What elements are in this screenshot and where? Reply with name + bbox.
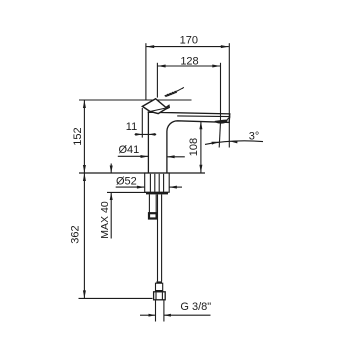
angle arrow left	[212, 142, 220, 145]
dim 11 ext left (lever tip)	[141, 108, 143, 138]
threaded stud	[148, 195, 150, 214]
ferrule bottom edge	[155, 290, 163, 292]
dim 128 arrow left	[158, 65, 166, 68]
svg-text:362: 362	[70, 225, 82, 243]
MAX40 ref line	[107, 191, 146, 193]
dim 152 arrow top	[83, 100, 86, 108]
dia41 leader	[118, 155, 148, 157]
svg-text:G 3/8": G 3/8"	[180, 301, 211, 313]
lever outline	[142, 99, 169, 114]
stud nut	[149, 213, 157, 218]
deck line	[79, 172, 205, 174]
dim 128 line	[158, 65, 221, 67]
dim 362 arrow top	[83, 173, 86, 181]
dim 152+362 line	[83, 100, 85, 298]
faucet body outline	[148, 112, 230, 173]
dim 128 ext left	[156, 63, 158, 98]
supply hose	[157, 195, 159, 282]
mounting box hatch lines	[149, 174, 151, 192]
MAX40 lower arrow + leader	[110, 193, 112, 239]
svg-text:128: 128	[180, 55, 198, 67]
mounting box	[145, 173, 170, 192]
dim 170 ext right	[228, 43, 230, 147]
svg-text:3°: 3°	[249, 131, 260, 143]
dim 170 arrow right	[221, 45, 229, 48]
lever indicator stick	[165, 87, 184, 96]
spout outlet teardrop	[215, 120, 228, 124]
svg-text:Ø52: Ø52	[116, 175, 137, 187]
dim 108 arrow top	[199, 121, 202, 129]
dim 170 line	[146, 46, 229, 48]
bottom reference line 362	[79, 297, 153, 299]
spout tip edge line	[227, 117, 230, 120]
angle arrow right	[230, 141, 238, 144]
G3/8 ext lines	[155, 300, 157, 321]
dim 11 arrow right (outside)	[148, 133, 155, 136]
hose end band	[156, 281, 162, 283]
dim 170 ext left	[145, 43, 147, 100]
svg-text:MAX 40: MAX 40	[99, 201, 111, 239]
dim 108 arrow bottom	[199, 165, 202, 173]
dim 152 arrow bottom	[83, 165, 86, 173]
lever top extension line	[79, 99, 192, 101]
spout top inner edge	[177, 115, 229, 118]
angle 3deg leg tilted	[219, 122, 220, 148]
lever crease	[150, 108, 165, 111]
dim 11 line	[135, 133, 157, 135]
gasket bar	[146, 192, 168, 194]
svg-text:108: 108	[188, 138, 200, 156]
dim 170 arrow left	[146, 45, 154, 48]
G3/8 nut	[154, 292, 166, 300]
dim 362 arrow bottom	[83, 290, 86, 298]
dim 128 ext right / aerator axis	[220, 63, 222, 122]
dia52 leader	[116, 186, 145, 188]
svg-text:152: 152	[72, 127, 84, 145]
angle 3deg arc	[205, 141, 263, 145]
svg-text:11: 11	[126, 121, 137, 133]
dim 108 line	[200, 122, 202, 173]
MAX40 dim upper arrow	[110, 164, 112, 174]
dim 128 arrow right	[212, 65, 220, 68]
dim 11 arrow left (outside)	[135, 133, 142, 136]
hose ferrule	[156, 283, 163, 291]
svg-text:Ø41: Ø41	[119, 144, 140, 156]
svg-text:170: 170	[180, 35, 198, 47]
nut facet lines	[155, 293, 157, 300]
G3/8 dim arrows and leaders	[140, 314, 155, 316]
